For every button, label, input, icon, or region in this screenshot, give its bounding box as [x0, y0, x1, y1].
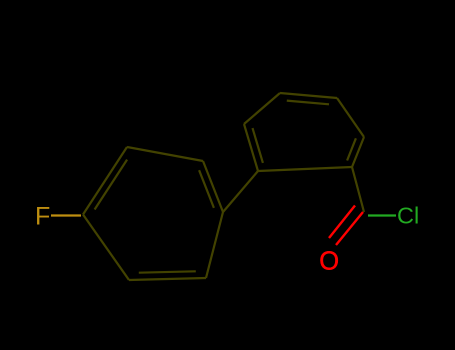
carbonyl double bond C13=O line 1 (red) — [336, 212, 363, 245]
bond C12-C7 (ring2 bottom) — [258, 167, 352, 171]
bond C3-C4 (ring1) — [203, 161, 223, 212]
bond C11-C12 (ring2) — [352, 137, 364, 167]
double bond inner C3-C4 — [199, 170, 214, 208]
svg-text:F: F — [35, 203, 50, 231]
bond C10-C11 (ring2) — [337, 98, 364, 137]
bond C4-C5 (ring1) — [206, 212, 223, 278]
svg-text:Cl: Cl — [397, 203, 419, 229]
double bond inner C5-C6 — [139, 271, 196, 272]
double bond inner C1-C2 — [95, 160, 128, 210]
bond C6-C1 (ring1) — [83, 215, 129, 281]
bond C9-C10 (ring2 top) — [280, 93, 337, 98]
double bond inner C11-C12 — [347, 138, 356, 160]
bond C8-C9 (ring2) — [244, 93, 280, 124]
double bond inner C7-C8 — [253, 128, 263, 163]
bond C5-C6 (ring1 bottom) — [129, 278, 206, 280]
svg-text:O: O — [319, 248, 339, 276]
bond F-C1 — [51, 214, 81, 216]
double bond inner C9-C10 — [287, 101, 329, 105]
bond C2-C3 (ring1 top) — [127, 147, 203, 161]
bond C13-Cl (green) — [368, 214, 396, 216]
biphenyl bond C4-C7 — [223, 171, 258, 212]
bond C1-C2 (ring1) — [83, 147, 127, 215]
carbonyl double bond C13=O line 2 (red) — [329, 206, 355, 239]
bond C12-C13 (to carbonyl carbon) — [352, 167, 364, 212]
bond C7-C8 (ring2) — [244, 124, 258, 171]
